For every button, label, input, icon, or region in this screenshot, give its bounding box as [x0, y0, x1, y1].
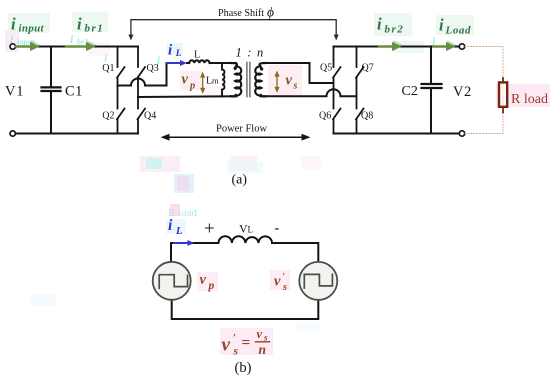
svg-text:R load: R load: [511, 92, 548, 107]
svg-text:i: i: [439, 16, 444, 35]
svg-text:L: L: [175, 226, 182, 237]
svg-text:v: v: [274, 274, 281, 290]
svg-text:i: i: [168, 217, 173, 234]
wire secondary bottom to bridge2 with hop: [264, 89, 357, 96]
svg-text:Q2: Q2: [102, 111, 114, 122]
wire bottom rail right bridge: [334, 133, 463, 135]
phase shift bracket: [128, 20, 338, 41]
switch Q6: [333, 96, 341, 133]
svg-text:C1: C1: [65, 84, 83, 100]
equation v_s' = v_s / n: [222, 327, 270, 357]
wire top left of loop: [171, 243, 219, 262]
svg-text:-: -: [275, 221, 280, 236]
wire top right of loop: [272, 243, 318, 262]
svg-text:Q1: Q1: [102, 63, 114, 74]
svg-text:Q4: Q4: [144, 111, 156, 122]
wire bridge1 leg A midpoint with hop over leg B: [118, 63, 167, 86]
svg-text:v: v: [286, 73, 293, 89]
svg-text:n: n: [259, 342, 267, 357]
svg-text:i: i: [377, 15, 382, 34]
svg-text:′: ′: [283, 273, 286, 283]
switch Q2: [117, 86, 125, 134]
svg-text:s: s: [293, 81, 298, 92]
svg-text:i: i: [11, 15, 16, 34]
arrow i_br1: [66, 40, 96, 51]
svg-text:=: =: [242, 335, 251, 352]
wire top rail right bridge: [334, 46, 463, 48]
capacitor C2: [422, 47, 442, 134]
switch Q5: [333, 47, 341, 97]
svg-text:Phase Shift: Phase Shift: [218, 8, 264, 19]
svg-text:(a): (a): [232, 173, 248, 188]
svg-text:Q6: Q6: [319, 111, 331, 122]
svg-text:s: s: [233, 346, 239, 358]
inductor VL: [219, 236, 272, 243]
source v_p square-wave symbol: [159, 275, 187, 289]
svg-text:v: v: [222, 335, 231, 356]
wire bridge1 leg B midpoint to transformer bottom: [138, 95, 237, 98]
wire to inductor: [187, 62, 189, 64]
svg-text:Q5: Q5: [320, 63, 332, 74]
svg-text:+: +: [204, 219, 215, 240]
voltage arrow v_s (double-headed): [274, 71, 279, 93]
power flow arrow (double-headed): [161, 134, 311, 141]
terminal top-right: [459, 44, 464, 49]
svg-text:C2: C2: [402, 84, 418, 99]
source v_s' circle: [299, 262, 337, 300]
transformer primary winding: [231, 63, 241, 96]
wire bottom rail left bridge: [13, 133, 138, 135]
svg-text:V2: V2: [453, 84, 472, 100]
switch Q1: [117, 47, 125, 86]
primary polarity dot: [234, 67, 237, 70]
arrow i_Load: [431, 40, 456, 51]
switch Q3: [138, 47, 146, 98]
svg-text:(b): (b): [235, 360, 252, 376]
wire inductor to transformer: [210, 62, 236, 64]
svg-text:i: i: [77, 15, 82, 34]
switch Q7: [356, 47, 364, 97]
svg-text:Q8: Q8: [361, 111, 373, 122]
svg-text:v: v: [182, 72, 189, 88]
resistor R load: [499, 78, 507, 113]
svg-text:1 : n: 1 : n: [236, 46, 265, 60]
arrow i_input: [16, 40, 40, 51]
svg-text:Q7: Q7: [362, 63, 374, 74]
svg-text:p: p: [208, 280, 215, 292]
svg-text:br2: br2: [385, 24, 405, 36]
transformer secondary winding: [255, 63, 265, 96]
svg-text:Load: Load: [445, 25, 472, 37]
source v_s' square-wave symbol: [304, 274, 332, 288]
transformer core: [247, 63, 250, 97]
magnetizing inductance Lm: [222, 63, 225, 96]
source v_p circle: [153, 262, 191, 300]
svg-text:Power Flow: Power Flow: [216, 124, 267, 135]
svg-text:p: p: [189, 81, 195, 92]
terminal bottom-left: [10, 131, 15, 136]
arrow i_br2: [379, 40, 402, 51]
terminal bottom-right: [459, 131, 464, 136]
terminal top-left: [10, 44, 15, 49]
svg-text:L: L: [248, 225, 254, 235]
svg-text:s: s: [282, 282, 287, 293]
inductor L: [189, 60, 209, 63]
capacitor C1: [42, 47, 61, 134]
svg-text:input: input: [19, 23, 45, 35]
switch Q4: [138, 97, 146, 134]
svg-text:br1: br1: [85, 23, 105, 35]
svg-text:ϕ: ϕ: [267, 5, 274, 20]
svg-text:L: L: [194, 50, 200, 61]
dashed load connection: [465, 47, 503, 134]
svg-text:L: L: [175, 49, 182, 59]
wire secondary top to bridge2: [264, 63, 334, 83]
svg-text:Q3: Q3: [147, 63, 159, 74]
wire top rail left bridge: [13, 46, 138, 48]
svg-text:v: v: [200, 272, 207, 288]
secondary polarity dot: [260, 67, 263, 70]
switch Q8: [356, 96, 364, 133]
svg-text:v: v: [257, 327, 263, 341]
svg-text:m: m: [212, 75, 219, 85]
voltage arrow v_p (double-headed): [200, 72, 205, 94]
svg-text:V1: V1: [5, 84, 24, 100]
svg-text:′: ′: [233, 332, 236, 344]
arrow i_L (b): [174, 240, 194, 246]
arrow i_L: [167, 60, 187, 66]
wire bottom of loop: [172, 300, 319, 319]
